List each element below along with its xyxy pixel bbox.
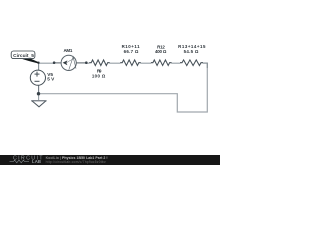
label V5 value [47, 72, 55, 82]
label R10+11 value [122, 44, 141, 54]
wire R12 to R13+14+15 [171, 62, 180, 64]
wire node down to V5 top [38, 63, 40, 70]
ammeter AM1 [61, 55, 76, 70]
svg-text:AM1: AM1 [63, 48, 72, 53]
wire return path from R13 to corner, down, and back to source [40, 63, 207, 112]
label R13+14+15 value [178, 44, 206, 54]
svg-text:http://circuitlab.com/c/7hp9uc: http://circuitlab.com/c/7hp9uc5z0tbv [46, 160, 106, 164]
ground [31, 101, 46, 107]
junction node A [37, 62, 39, 64]
svg-text:100 Ω: 100 Ω [92, 73, 106, 78]
terminal dot ammeter right [85, 61, 88, 64]
label R9 value [92, 68, 106, 78]
resistor R13+14+15 [180, 60, 203, 66]
node label Circuit_5 [11, 51, 38, 64]
resistor R9 [89, 60, 110, 66]
wire darker stub at top-right corner [203, 63, 207, 68]
terminal dot ammeter left [53, 61, 56, 64]
wire node to ammeter left terminal [39, 62, 55, 64]
resistor R10+11 [120, 60, 141, 66]
label R12 value [155, 45, 167, 54]
svg-text:400 Ω: 400 Ω [155, 49, 167, 54]
wire V5 bottom to junction [38, 85, 40, 94]
svg-text:66.7 Ω: 66.7 Ω [124, 49, 139, 54]
wire R10+11 to R12 [141, 62, 152, 64]
footer logo CIRCUIT LAB [10, 156, 44, 164]
lead ammeter left [54, 62, 61, 64]
junction dot at source bottom [37, 92, 40, 95]
lead ammeter right [76, 62, 86, 64]
wire ammeter right terminal to R9 [86, 62, 89, 64]
svg-text:5 V: 5 V [47, 77, 55, 82]
voltage source V5 [30, 70, 45, 85]
svg-text:LAB: LAB [32, 159, 41, 164]
svg-text:Circuit_5: Circuit_5 [13, 53, 34, 59]
footer bar [0, 155, 220, 165]
svg-text:54.5 Ω: 54.5 Ω [184, 49, 199, 54]
resistor R12 [151, 60, 172, 66]
wire R9 to R10+11 [110, 62, 121, 64]
wire junction to ground lead [38, 94, 40, 100]
